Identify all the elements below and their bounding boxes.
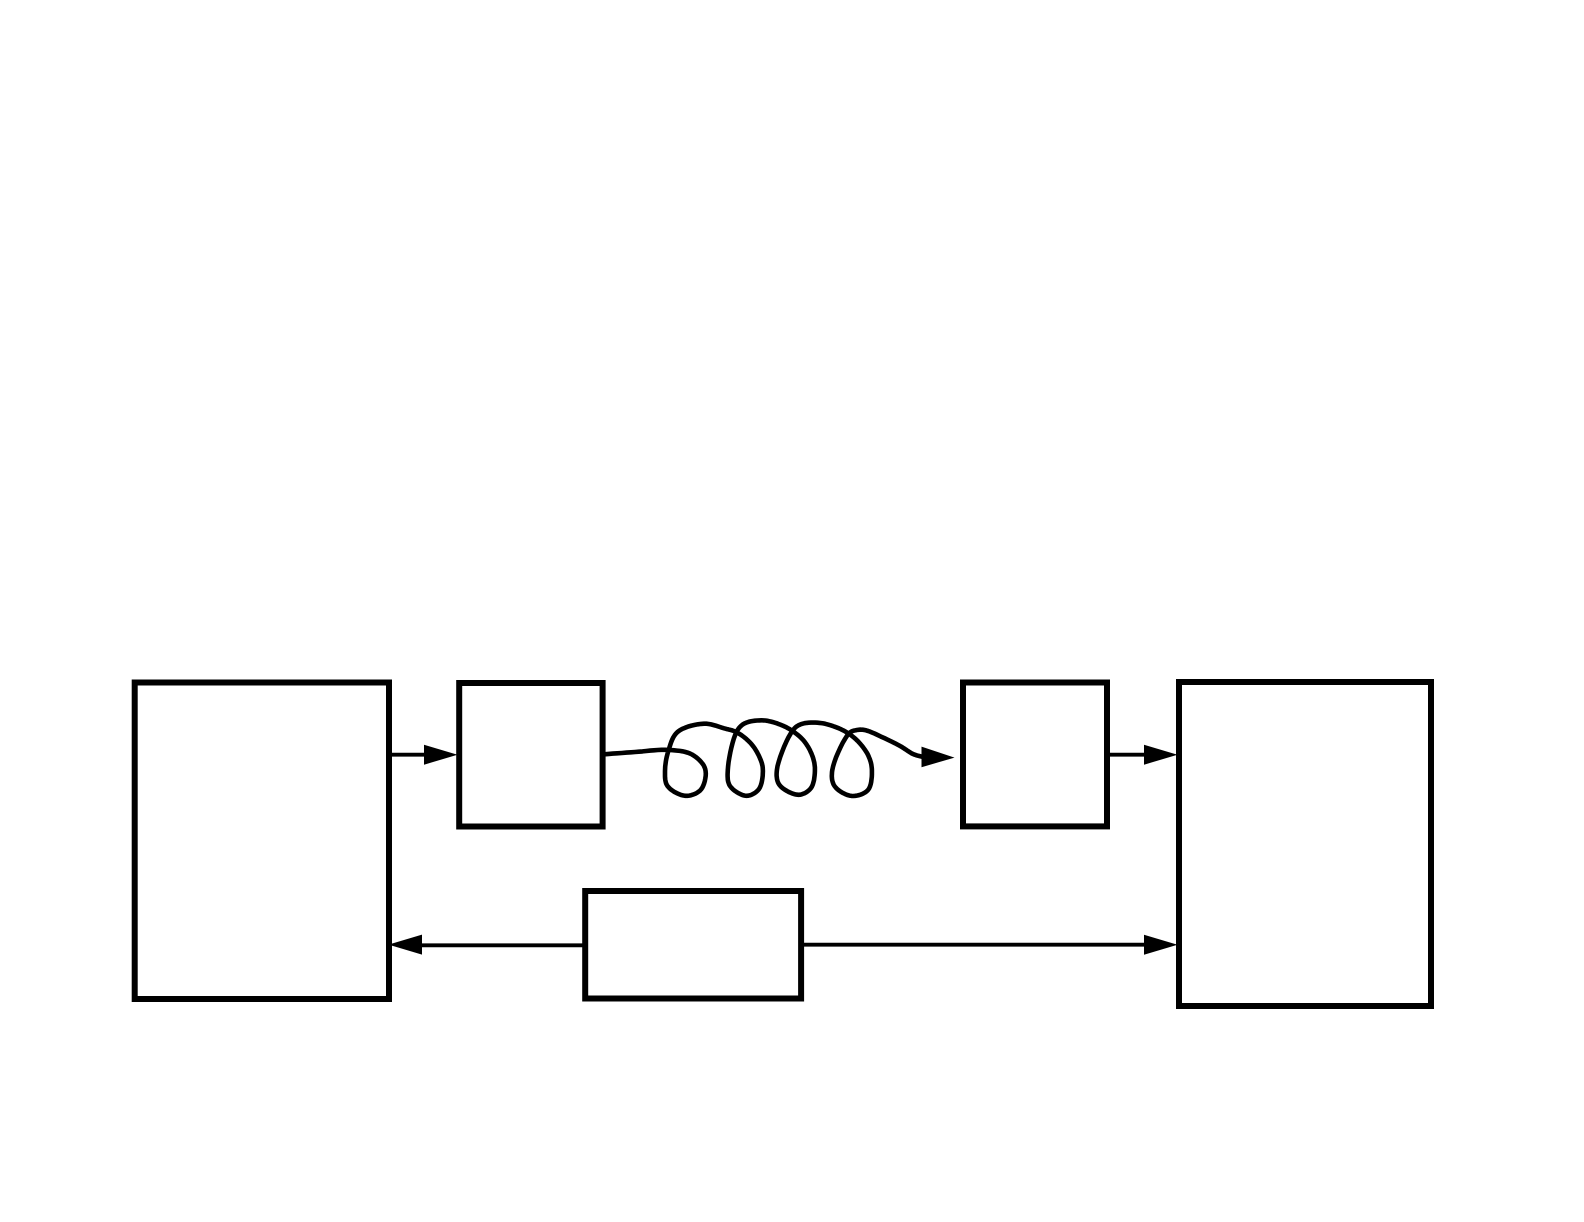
block: middle bottom box	[585, 891, 801, 999]
wire: arrow shaft from small box 2 to right box	[1109, 753, 1145, 757]
wire: arrow shaft from left box to small box 1	[389, 753, 425, 757]
arrowhead into right box (upper)	[1144, 745, 1178, 765]
arrowhead into right box (lower)	[1144, 935, 1178, 955]
block: small box 1 (transmitter)	[459, 683, 602, 827]
wire: shaft from middle box to right box	[803, 943, 1145, 947]
wire: shaft from middle box to left box	[421, 943, 583, 947]
block: left large box	[135, 683, 389, 1000]
arrowhead at coil end into small box 2	[922, 747, 955, 768]
arrowhead into left box (pointing left)	[389, 935, 423, 955]
block: right large box	[1179, 682, 1431, 1006]
arrowhead into small box 1	[424, 745, 458, 765]
block: small box 2 (receiver)	[963, 683, 1107, 827]
wire: coil squiggle channel	[603, 720, 923, 796]
